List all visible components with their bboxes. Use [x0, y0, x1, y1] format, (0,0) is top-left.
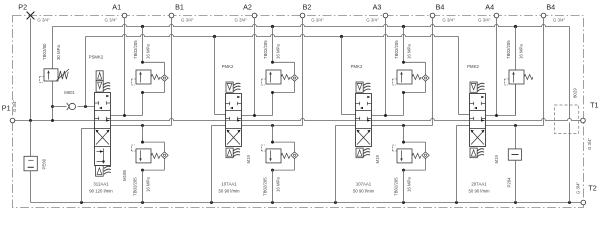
label G 3/4 at T2 [576, 181, 581, 194]
svg-text:G 3/4": G 3/4" [553, 17, 566, 22]
valve V4 bottom spring [477, 149, 484, 157]
thread label G 3/4" [235, 17, 248, 22]
label 16 MPa B2 [276, 177, 281, 192]
valve V1 bottom cap [96, 166, 104, 177]
thread label G 3/4" [442, 17, 455, 22]
port A1 [122, 13, 127, 18]
label M601 [64, 90, 75, 95]
M19 label section 4 [494, 155, 499, 164]
valve V4 top spring [478, 83, 485, 91]
anti-cavitation check B1 [161, 152, 168, 159]
svg-text:G 3/4": G 3/4" [37, 17, 50, 22]
svg-text:312AA1: 312AA1 [93, 182, 109, 187]
port label A1 [112, 3, 121, 12]
section code 107AA1 [221, 182, 237, 187]
wire work port B down [432, 18, 434, 126]
section code 207AA1 [471, 182, 487, 187]
valve V2 top cap [226, 82, 233, 92]
port P2 (plugged, X mark) [27, 12, 35, 20]
junction on tank rail [141, 25, 144, 28]
thread label G 3/4" [366, 17, 379, 22]
anti-shock loop B1 [143, 142, 165, 170]
svg-text:16 MPa: 16 MPa [146, 44, 151, 59]
junction on tank return rail [568, 201, 571, 204]
svg-text:T2: T2 [588, 184, 596, 193]
valve model label PMK2 [467, 64, 479, 69]
valve V2 top spring [234, 83, 241, 91]
valve V3 bottom spring [363, 149, 370, 157]
tank rail (upper, from inlet relief to outlet) [53, 25, 570, 27]
svg-text:G 3/4": G 3/4" [12, 99, 17, 112]
leg continues through relief s4 [515, 84, 517, 116]
wire feed rail drop s1 [85, 37, 87, 107]
anti-shock relief spring A4 [524, 75, 533, 80]
valve V1 bottom spring [104, 166, 111, 174]
section code 107AA1 [356, 182, 372, 187]
directional valve V1 body [95, 93, 111, 166]
svg-text:M19E: M19E [122, 170, 127, 181]
junction B3 relief top [402, 141, 405, 144]
anti-shock relief leg A2 [272, 27, 274, 63]
thread label G 3/4" [478, 17, 491, 22]
junction on tank return rail [271, 201, 274, 204]
junction P2 on pump line [29, 119, 32, 122]
inlet check valve [67, 103, 76, 110]
junction feed rail drop on check line [84, 105, 87, 108]
valve model label PSMK2 [89, 55, 104, 60]
thread label G 3/4" [105, 17, 118, 22]
valve V3 bottom cap [356, 148, 363, 158]
label PE60 [41, 158, 46, 169]
svg-text:P1: P1 [2, 104, 11, 113]
wire inlet relief riser [52, 27, 54, 121]
label 16 MPa A2 [276, 44, 281, 59]
label 16 MPa B3 [407, 177, 412, 192]
work line B3 [372, 125, 433, 127]
label TB02/80 [42, 43, 47, 60]
label 16 MPa A3 [407, 44, 412, 59]
junction A1 relief bottom [141, 91, 144, 94]
anti-shock loop A2 [273, 62, 295, 92]
valve V3 top spring [364, 83, 371, 91]
svg-text:PMK2: PMK2 [351, 64, 363, 69]
thread label G 3/4" [311, 17, 324, 22]
junction A2 relief top [271, 61, 274, 64]
junction A4 port [495, 114, 498, 117]
port label B4 [546, 3, 555, 12]
anti-shock relief spring B2 [281, 153, 290, 158]
section flow 90 120 l/min [89, 189, 113, 194]
anti-shock relief valve B1 [136, 149, 151, 163]
label P204 [507, 177, 512, 188]
anti-shock pilot A4 [505, 79, 510, 85]
svg-text:M19: M19 [494, 155, 499, 164]
svg-text:TB02/205: TB02/205 [263, 177, 268, 196]
junction A3 relief bottom [402, 91, 405, 94]
svg-text:TB02/205: TB02/205 [133, 177, 138, 196]
thread label G 3/4" [181, 17, 194, 22]
thread label G 3/4" [37, 17, 50, 22]
anti-shock relief spring B3 [412, 153, 421, 158]
anti-shock pilot B2 [262, 145, 267, 151]
svg-text:A3: A3 [373, 3, 382, 12]
svg-text:207AA1: 207AA1 [471, 182, 487, 187]
port label A3 [373, 3, 382, 12]
carryover plug 8029 (dashed box) [555, 105, 579, 134]
drain wire B2 to tank rail [272, 170, 274, 202]
valve V3 top cap [356, 82, 363, 92]
label TB02/205 B1 [133, 177, 138, 196]
svg-text:8029: 8029 [573, 88, 578, 98]
svg-text:B4: B4 [546, 3, 555, 12]
anti-shock relief valve A3 [397, 70, 412, 84]
junction inlet riser on check line [51, 105, 54, 108]
junction B2 relief leg [271, 124, 274, 127]
label P1 [2, 104, 11, 113]
port T1 [581, 118, 586, 123]
port B4 [541, 13, 546, 18]
drain wire section 4 [457, 126, 470, 203]
anti-shock pilot A2 [262, 79, 267, 85]
svg-text:G 3/4": G 3/4" [105, 17, 118, 22]
svg-text:P204: P204 [507, 177, 512, 188]
svg-text:PMK2: PMK2 [222, 64, 234, 69]
anti-shock relief valve A4 [509, 70, 524, 84]
drain wire section 3 [336, 126, 356, 203]
svg-text:G 3/4": G 3/4" [478, 17, 491, 22]
anti-shock relief leg B3 [403, 126, 405, 143]
section flow 50 90 l/min [468, 189, 490, 194]
main relief valve TB02/80 [44, 69, 58, 81]
junction A3 port [384, 114, 387, 117]
filter/plug PE60 [24, 121, 37, 203]
wire work port B down [171, 18, 173, 126]
label TB02/205 A2 [263, 40, 268, 59]
port label B1 [175, 3, 184, 12]
svg-text:B2: B2 [303, 3, 312, 12]
label 16 MPa B1 [146, 177, 151, 192]
work line A4 [486, 84, 516, 116]
svg-text:M19: M19 [246, 155, 251, 164]
junction on tank return rail [514, 201, 517, 204]
junction A1 port [123, 114, 126, 117]
drain wire section 2 [212, 126, 226, 203]
label TB02/205 A4 [506, 40, 511, 59]
work line A3 [372, 93, 404, 116]
svg-text:B4: B4 [436, 3, 445, 12]
junction B1 relief top [141, 141, 144, 144]
svg-text:16 MPa: 16 MPa [276, 177, 281, 192]
feed wire section 2 [215, 37, 226, 115]
junction B4 relief leg [514, 124, 517, 127]
junction B2 relief bottom [271, 169, 274, 172]
anti-cavitation check A3 [422, 75, 429, 82]
svg-text:107AA1: 107AA1 [356, 182, 372, 187]
port label A4 [485, 3, 494, 12]
svg-text:G 3/4": G 3/4" [235, 17, 248, 22]
valve V2 bottom cap [226, 148, 233, 158]
anti-shock pilot B3 [393, 145, 398, 151]
port P1 [10, 118, 15, 123]
junction A2 port [253, 114, 256, 117]
anti-shock relief spring A1 [151, 75, 160, 80]
junction on feed rail [213, 35, 343, 38]
svg-text:M601: M601 [64, 90, 75, 95]
junction A2 relief bottom [271, 91, 274, 94]
anti-cavitation check B2 [291, 152, 298, 159]
wire work port A down [254, 18, 256, 116]
anti-shock relief valve B3 [397, 149, 412, 163]
section flow 50 90 l/min [218, 189, 240, 194]
wire work port B down [543, 18, 545, 126]
svg-text:G 3/4": G 3/4" [442, 17, 455, 22]
wire work port A down [496, 18, 498, 116]
svg-text:P2: P2 [18, 3, 27, 12]
valve model label PMK2 [351, 64, 363, 69]
pump line P1-T1 carryover [13, 119, 581, 121]
port A2 [252, 13, 257, 18]
junction A3 relief top [402, 61, 405, 64]
label 16 MPa A4 [519, 44, 524, 59]
label T2 [588, 184, 596, 193]
port B2 [300, 13, 305, 18]
junction inlet riser on pump line [51, 119, 54, 122]
tank return rail [31, 202, 582, 204]
label 30 MPa [56, 44, 61, 60]
outlet riser (tank rail down) [569, 27, 571, 203]
junction B3 relief leg [402, 124, 405, 127]
port label B4 [436, 3, 445, 12]
drain wire section 1 [82, 128, 95, 202]
valve V4 bottom cap [470, 148, 477, 158]
port label B2 [303, 3, 312, 12]
junction on tank return rail [210, 201, 213, 204]
junction on tank rail [402, 25, 405, 28]
svg-text:50 90 l/min: 50 90 l/min [468, 189, 490, 194]
label TB02/205 A1 [133, 40, 138, 59]
svg-text:107AA1: 107AA1 [221, 182, 237, 187]
wire P2 vertical [30, 18, 32, 120]
feed wire section 3 [342, 37, 356, 115]
anti-cavitation check A2 [291, 75, 298, 82]
junction on tank return rail [402, 201, 405, 204]
label TB02/205 A3 [394, 40, 399, 59]
svg-text:A1: A1 [112, 3, 121, 12]
label 16 MPa A1 [146, 44, 151, 59]
svg-text:90 120 l/min: 90 120 l/min [89, 189, 113, 194]
svg-text:TB02/205: TB02/205 [263, 40, 268, 59]
svg-text:50 90 l/min: 50 90 l/min [218, 189, 240, 194]
svg-text:G 3/4": G 3/4" [576, 181, 581, 194]
svg-text:M19: M19 [375, 155, 380, 164]
M19 label section 2 [246, 155, 251, 164]
svg-text:T1: T1 [590, 101, 598, 110]
directional valve V2 body [226, 94, 242, 147]
junction on tank return rail [80, 201, 83, 204]
valve V1 pilot cap up (box with triangle up) [96, 71, 103, 81]
svg-text:G 3/4": G 3/4" [311, 17, 324, 22]
junction on tank rail [271, 25, 274, 28]
svg-text:B1: B1 [175, 3, 184, 12]
anti-shock relief leg B2 [272, 126, 274, 143]
junction on tank return rail [455, 201, 458, 204]
svg-text:PE60: PE60 [41, 158, 46, 169]
label 8029 [573, 88, 578, 98]
M19E label section 1 [122, 170, 127, 181]
port A3 [383, 13, 388, 18]
anti-shock loop A3 [404, 62, 426, 92]
work line B2 [242, 125, 303, 127]
svg-text:TB02/205: TB02/205 [394, 40, 399, 59]
valve V2 bottom spring [233, 149, 240, 157]
label G 3/4 at P1 [12, 99, 17, 112]
junction on tank return rail [334, 201, 337, 204]
anti-shock relief spring A2 [281, 75, 290, 80]
svg-text:30 MPa: 30 MPa [56, 44, 61, 60]
junction B2 relief top [271, 141, 274, 144]
M19 label section 3 [375, 155, 380, 164]
valve V4 top cap [470, 82, 477, 92]
label T1 [590, 101, 598, 110]
svg-text:TB02/205: TB02/205 [133, 40, 138, 59]
svg-text:TB02/205: TB02/205 [394, 177, 399, 196]
work line A1 [111, 93, 143, 116]
enclosure border (manifold envelope) [13, 16, 584, 208]
svg-text:G 3/4": G 3/4" [587, 137, 592, 150]
svg-text:16 MPa: 16 MPa [276, 44, 281, 59]
svg-text:A2: A2 [243, 3, 252, 12]
anti-shock loop B3 [404, 142, 426, 170]
work line B1 [111, 125, 172, 127]
section flow 50 90 l/min [353, 189, 375, 194]
svg-text:A4: A4 [485, 3, 494, 12]
parallel feed rail [86, 35, 459, 37]
feed wire section 4 [459, 37, 470, 115]
svg-text:16 MPa: 16 MPa [519, 44, 524, 59]
anti-shock relief spring A3 [412, 75, 421, 80]
wire work port B down [302, 18, 304, 126]
main relief pilot line (dashed) [40, 77, 45, 83]
wire work port A down [124, 18, 126, 116]
anti-shock relief leg B1 [142, 126, 144, 143]
directional valve V4 body [470, 94, 486, 147]
svg-text:16 MPa: 16 MPa [407, 177, 412, 192]
junction B1 relief bottom [141, 169, 144, 172]
thread label G 3/4" [553, 17, 566, 22]
junction A1 relief top [141, 61, 144, 64]
junction B1 relief leg [141, 124, 144, 127]
svg-text:G 3/4": G 3/4" [181, 17, 194, 22]
label TB02/205 B3 [394, 177, 399, 196]
main relief spring [57, 69, 70, 81]
label TB02/205 B2 [263, 177, 268, 196]
anti-shock relief spring B1 [151, 153, 160, 158]
port B3 [430, 13, 435, 18]
section code 312AA1 [93, 182, 109, 187]
svg-text:PMK2: PMK2 [467, 64, 479, 69]
anti-shock pilot A1 [132, 79, 137, 85]
valve V1 top spring [103, 83, 110, 91]
drain wire B3 to tank rail [403, 170, 405, 202]
wire work port A down [385, 18, 387, 116]
svg-text:50 90 l/min: 50 90 l/min [353, 189, 375, 194]
anti-cavitation check B3 [422, 152, 429, 159]
svg-text:16 MPa: 16 MPa [407, 44, 412, 59]
svg-text:G 3/4": G 3/4" [366, 17, 379, 22]
valve model label PMK2 [222, 64, 234, 69]
anti-cavitation check A1 [161, 75, 168, 82]
anti-shock relief leg A4 [515, 27, 517, 71]
port T2 [581, 200, 586, 205]
port label P2 [18, 3, 27, 12]
anti-shock relief valve B2 [266, 149, 281, 163]
junction B3 relief bottom [402, 169, 405, 172]
drain wire B1 to tank rail [142, 170, 144, 202]
svg-text:TB02/80: TB02/80 [42, 43, 47, 60]
check line to section 1 [53, 106, 95, 108]
port label A2 [243, 3, 252, 12]
work line A2 [242, 93, 273, 116]
anti-shock loop B2 [273, 142, 295, 170]
svg-text:TB02/205: TB02/205 [506, 40, 511, 59]
svg-text:16 MPa: 16 MPa [146, 177, 151, 192]
junction on tank return rail [141, 201, 144, 204]
anti-shock relief valve A2 [266, 70, 281, 84]
junction on tank rail [514, 25, 517, 28]
anti-shock loop A1 [143, 62, 165, 92]
port A4 [494, 13, 499, 18]
anti-shock pilot A3 [393, 79, 398, 85]
svg-text:PSMK2: PSMK2 [89, 55, 104, 60]
label G 3/4 at T1 [587, 137, 592, 150]
anti-shock pilot B1 [132, 145, 137, 151]
port B1 [169, 13, 174, 18]
anti-shock relief leg A3 [403, 27, 405, 63]
work line B4 [486, 125, 544, 127]
plug P204 [508, 126, 521, 203]
valve V1 pilot cap down (box with triangle down) [96, 81, 103, 92]
anti-shock relief valve A1 [136, 70, 151, 84]
directional valve V3 body [356, 94, 372, 147]
anti-shock relief leg A1 [142, 27, 144, 63]
